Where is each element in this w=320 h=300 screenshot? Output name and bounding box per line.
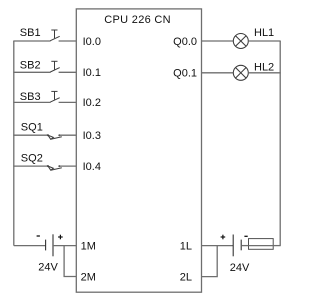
wire pin 2M jog to 1M wire junction	[64, 246, 76, 277]
svg-text:1L: 1L	[180, 240, 192, 252]
svg-text:Q0.1: Q0.1	[173, 68, 197, 80]
lamp HL2	[233, 65, 248, 80]
polarity label plus GB2	[221, 235, 226, 240]
wire pin Q0.1 to lamp HL2	[202, 72, 234, 74]
pushbutton SB2	[50, 61, 59, 72]
svg-text:HL2: HL2	[254, 62, 274, 74]
polarity label minus GB1	[37, 235, 40, 237]
svg-text:I0.1: I0.1	[83, 67, 101, 79]
wire bus to SB1	[13, 40, 50, 42]
wire left bus to battery GB1	[14, 245, 46, 247]
wire pin Q0.0 to lamp HL1	[202, 40, 234, 42]
svg-text:HL1: HL1	[254, 27, 274, 39]
left bus wire	[13, 41, 15, 246]
svg-text:I0.3: I0.3	[83, 130, 101, 142]
svg-text:Q0.0: Q0.0	[173, 36, 197, 48]
pushbutton SB3	[50, 91, 59, 102]
svg-text:SQ2: SQ2	[21, 153, 43, 165]
svg-text:I0.0: I0.0	[83, 36, 101, 48]
wire SB1 to pin I0.0	[59, 40, 77, 42]
svg-text:I0.2: I0.2	[83, 97, 101, 109]
wire battery GB2 to fuse FU	[241, 245, 248, 247]
wire bus to SQ1	[13, 134, 47, 136]
wire lamp HL1 to right bus	[248, 40, 280, 42]
wire pin 2L jog to 1L wire junction	[202, 246, 218, 277]
svg-text:24V: 24V	[230, 262, 250, 274]
pushbutton SB1	[50, 30, 59, 41]
wire bus to SB3	[13, 101, 50, 103]
svg-text:1M: 1M	[81, 240, 96, 252]
svg-text:CPU 226 CN: CPU 226 CN	[104, 14, 171, 26]
wire battery GB1 to pin 1M	[53, 245, 76, 247]
polarity label minus GB2	[244, 235, 247, 237]
limit switch SQ1	[47, 134, 62, 139]
wire SQ1 to pin I0.3	[59, 134, 76, 136]
wire bus to SB2	[13, 71, 50, 73]
limit switch SQ2	[47, 165, 62, 170]
battery GB1 24V	[46, 234, 53, 256]
svg-text:2M: 2M	[81, 271, 96, 283]
wire bus to SQ2	[13, 165, 47, 167]
fuse FU	[249, 239, 274, 250]
wire SQ2 to pin I0.4	[59, 165, 76, 167]
svg-text:24V: 24V	[38, 261, 58, 273]
wire pin 1L to battery GB2	[202, 245, 234, 247]
wire fuse FU to right bus corner	[273, 245, 281, 247]
svg-text:I0.4: I0.4	[83, 161, 101, 173]
svg-text:SQ1: SQ1	[21, 122, 43, 134]
svg-text:SB3: SB3	[20, 91, 41, 103]
PLC U1 box CPU 226 CN	[76, 9, 201, 292]
polarity label plus GB1	[58, 235, 63, 240]
wire lamp HL2 to right bus junction	[248, 72, 280, 74]
wire SB2 to pin I0.1	[59, 71, 77, 73]
svg-text:SB1: SB1	[20, 27, 41, 39]
lamp HL1	[233, 34, 248, 49]
svg-text:SB2: SB2	[20, 60, 41, 72]
battery GB2 24V	[233, 235, 241, 257]
wire SB3 to pin I0.2	[59, 101, 77, 103]
svg-text:2L: 2L	[180, 271, 192, 283]
right bus wire	[279, 41, 281, 246]
